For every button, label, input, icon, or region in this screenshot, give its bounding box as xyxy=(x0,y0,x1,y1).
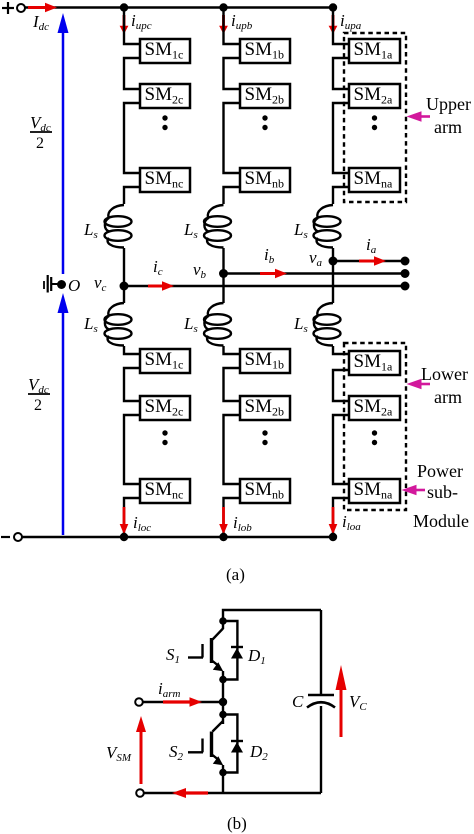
arrow ib xyxy=(260,269,287,278)
svg-text:(b): (b) xyxy=(227,814,247,833)
annotation Lower arm xyxy=(421,364,468,407)
wire va to coil xyxy=(332,261,334,303)
terminal b xyxy=(401,269,410,278)
wire vc line xyxy=(124,285,405,287)
wire vb to coil xyxy=(222,274,224,304)
wire S2 emitter to bottom xyxy=(222,765,224,793)
svg-text:(a): (a) xyxy=(226,565,245,584)
capacitor branch wire upper xyxy=(320,610,322,694)
upper arm dashed box (phase a) xyxy=(344,33,406,202)
node vb xyxy=(219,269,228,278)
arrow VC xyxy=(336,665,347,737)
wire SM1c to SM2c lower xyxy=(124,368,140,401)
wire SM2c to SMnc lower xyxy=(124,415,140,484)
annotation Upper arm xyxy=(426,94,471,137)
label upper Vdc/2 xyxy=(30,113,52,152)
svg-text:arm: arm xyxy=(434,117,462,137)
node D1 bottom xyxy=(219,676,227,684)
ellipsis dots upper b xyxy=(262,115,267,130)
upper Vdc/2 blue arrow xyxy=(58,13,69,274)
wire SM2b to SMnb xyxy=(224,103,241,173)
ellipsis dots lower a xyxy=(372,430,377,445)
svg-text:Lower: Lower xyxy=(421,364,468,384)
SMnb lower box xyxy=(240,479,290,503)
arrow i_loa xyxy=(329,507,338,535)
wire SM2a to SMna xyxy=(333,103,349,173)
SM2a box xyxy=(349,84,400,108)
node iarm junction xyxy=(219,698,227,706)
wire coil to node vc xyxy=(123,248,125,286)
SM2c box xyxy=(140,84,190,108)
node va xyxy=(329,257,338,266)
terminal c xyxy=(401,282,410,291)
SM2c lower box xyxy=(140,396,190,420)
ellipsis dots lower c xyxy=(162,430,167,445)
node bottom b xyxy=(219,533,227,541)
wire SMnc to coil xyxy=(124,187,140,204)
node bottom a xyxy=(329,533,337,541)
inductor Ls lower b xyxy=(204,303,231,346)
IGBT S2 xyxy=(188,721,223,759)
SM1a lower box xyxy=(349,351,400,375)
svg-text:O: O xyxy=(68,276,80,295)
node top b xyxy=(219,3,227,11)
IGBT S1 xyxy=(188,629,223,666)
positive terminal xyxy=(17,4,25,12)
negative terminal xyxy=(14,533,22,541)
wire SM1b to SM2b xyxy=(224,58,241,89)
minus sign xyxy=(1,536,10,538)
wire SM2b to SMnb lower xyxy=(224,415,241,484)
wire vb line xyxy=(224,272,406,274)
svg-text:C: C xyxy=(292,692,304,711)
capacitor C xyxy=(307,695,335,708)
inductor Ls upper b xyxy=(204,205,231,248)
wire S1 emitter down xyxy=(222,671,224,702)
wire coil to node vb xyxy=(222,248,224,274)
bottom DC bus wire xyxy=(22,536,334,539)
diode D1 branch wire xyxy=(223,621,237,680)
ellipsis dots lower b xyxy=(262,430,267,445)
wire SM1a to SM2a lower xyxy=(333,370,349,401)
svg-text:sub-: sub- xyxy=(427,482,458,502)
ellipsis dots upper c xyxy=(162,115,167,130)
wire SMnb to bottom bus xyxy=(224,498,241,537)
wire coil to SM1b lower xyxy=(224,346,241,354)
node top a xyxy=(329,3,337,11)
wire SM2c to SMnc xyxy=(124,103,140,173)
arrow ia xyxy=(359,256,386,265)
wire SM1b to SM2b lower xyxy=(224,368,241,401)
wire SMnc to bottom bus xyxy=(124,498,140,537)
wire va line xyxy=(333,260,405,262)
node O xyxy=(57,280,66,289)
arrow i_loc xyxy=(120,507,129,535)
wire SM1a to SM2a xyxy=(333,58,349,89)
wire SMna to bottom bus xyxy=(333,498,349,537)
ellipsis dots upper a xyxy=(372,115,377,130)
svg-text:Module: Module xyxy=(413,511,469,531)
node bottom c xyxy=(120,533,128,541)
lower arm dashed box (phase a) xyxy=(344,343,406,510)
node top c xyxy=(120,3,128,11)
SMnb box xyxy=(240,168,290,192)
arrow iarm xyxy=(163,697,202,707)
wire SM1c to SM2c xyxy=(124,58,140,89)
wire coil to node va xyxy=(332,248,334,261)
wire bus to SM1b xyxy=(224,8,241,45)
wire top of SM circuit xyxy=(223,610,321,629)
inductor Ls upper c xyxy=(105,205,132,248)
svg-text:2: 2 xyxy=(36,135,44,152)
arrow to lower arm xyxy=(407,379,431,389)
arrow i_upa xyxy=(329,15,338,34)
wire bus to SM1a xyxy=(333,8,349,45)
arrow to power submodule xyxy=(402,485,426,495)
neutral point symbol xyxy=(44,275,58,293)
arrow bottom return xyxy=(172,788,208,798)
node D2 top xyxy=(219,711,227,719)
inductor Ls lower a xyxy=(314,303,341,346)
wire vc to coil xyxy=(123,286,125,303)
SMna lower box xyxy=(349,479,400,503)
terminal a xyxy=(401,257,410,266)
input terminal top xyxy=(135,698,143,706)
wire bus to SM1c xyxy=(124,8,140,45)
svg-text:2: 2 xyxy=(34,397,42,414)
SM1b lower box xyxy=(240,349,290,373)
lower Vdc/2 blue arrow xyxy=(58,293,69,535)
svg-text:Upper: Upper xyxy=(426,94,471,114)
SM2b box xyxy=(240,84,290,108)
plus sign xyxy=(2,2,14,14)
node vc xyxy=(120,282,129,291)
SMnc box xyxy=(140,168,190,192)
SMnc lower box xyxy=(140,479,190,503)
arrow i_lob xyxy=(219,507,228,535)
capacitor branch wire lower xyxy=(320,706,322,793)
SMna box xyxy=(349,168,400,192)
annotation Power sub-Module xyxy=(413,461,469,531)
wire coil to SM1c lower xyxy=(124,346,140,354)
label lower Vdc/2 xyxy=(28,375,50,414)
SM1b box xyxy=(240,39,290,63)
arrow i_upc xyxy=(120,15,129,34)
diode D2 xyxy=(231,741,243,753)
SM2a lower box xyxy=(349,396,400,420)
arrow to upper arm xyxy=(407,111,431,121)
wire iarm input xyxy=(143,701,223,703)
IGBT S2 emitter arrowhead xyxy=(213,756,223,765)
SM1c lower box xyxy=(140,349,190,373)
SM1a box xyxy=(349,39,400,63)
wire coil to SM1a lower xyxy=(333,346,349,354)
diode D1 xyxy=(231,647,243,659)
node D2 bottom xyxy=(219,769,227,777)
arrow i_upb xyxy=(219,15,228,34)
IGBT S1 emitter arrowhead xyxy=(213,662,223,671)
SM2b lower box xyxy=(240,396,290,420)
current arrow Idc xyxy=(28,3,57,12)
svg-text:Power: Power xyxy=(417,461,463,481)
diode D2 branch wire xyxy=(223,715,237,773)
inductor Ls upper a xyxy=(314,205,341,248)
arrow ic xyxy=(148,281,174,290)
wire SM2a to SMna lower xyxy=(333,415,349,484)
wire SMna to coil xyxy=(333,187,349,204)
arrow VSM xyxy=(136,716,146,784)
bottom wire of SM circuit xyxy=(144,792,321,794)
SM1c box xyxy=(140,39,190,63)
top DC bus wire xyxy=(25,6,334,9)
wire between junction and S2 xyxy=(222,702,224,724)
inductor Ls lower c xyxy=(105,303,132,346)
node D1 top xyxy=(219,617,227,625)
input terminal bottom xyxy=(136,789,144,797)
wire SMnb to coil xyxy=(224,187,241,204)
svg-text:arm: arm xyxy=(434,387,462,407)
